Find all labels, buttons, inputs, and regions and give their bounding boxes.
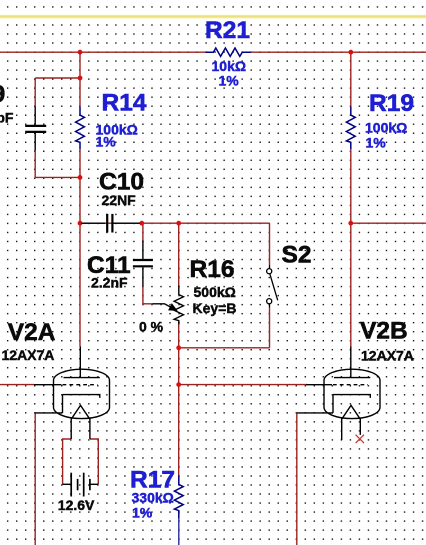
label C10 bbox=[99, 168, 144, 208]
svg-text:2.2nF: 2.2nF bbox=[91, 275, 128, 291]
svg-text:R16: R16 bbox=[190, 256, 235, 283]
node C9 top junction bbox=[78, 76, 83, 81]
wire bottom horizontal to S2 bbox=[179, 347, 270, 349]
label R21 bbox=[205, 17, 250, 89]
node V2B grid junction bbox=[176, 382, 181, 387]
wire top bus right bbox=[251, 51, 426, 53]
wire right vertical lower bbox=[350, 149, 352, 346]
wire down to R17 bbox=[178, 348, 180, 476]
tube V2B bbox=[297, 347, 380, 441]
wire left vertical lower bbox=[79, 149, 81, 346]
resistor R17 bbox=[174, 476, 183, 519]
label R14 bbox=[96, 90, 147, 150]
wire S2 bottom drop bbox=[269, 308, 271, 348]
label C11 bbox=[87, 252, 131, 291]
svg-text:100kΩ: 100kΩ bbox=[365, 120, 407, 136]
svg-text:12AX7A: 12AX7A bbox=[2, 347, 55, 363]
potentiometer R16 wiper arrowhead bbox=[169, 304, 177, 310]
node R16 top junction bbox=[176, 221, 181, 226]
tube V2A bbox=[34, 347, 110, 440]
label R19 bbox=[365, 90, 414, 151]
potentiometer R16 bbox=[153, 286, 184, 325]
wire R16 top bbox=[178, 223, 180, 285]
sheet border yellow line bbox=[0, 15, 426, 19]
svg-text:12.6V: 12.6V bbox=[58, 497, 95, 513]
svg-text:C9: C9 bbox=[0, 81, 5, 108]
wire top bus left bbox=[0, 51, 206, 53]
svg-text:0 %: 0 % bbox=[139, 319, 164, 335]
wire C9 top bbox=[35, 77, 80, 79]
switch S2 bbox=[267, 265, 278, 308]
V2B unconnected pin X bbox=[356, 435, 364, 443]
junction nodes bbox=[78, 50, 354, 387]
svg-text:10kΩ: 10kΩ bbox=[212, 58, 247, 74]
svg-text:V2A: V2A bbox=[8, 319, 56, 346]
svg-text:R14: R14 bbox=[102, 90, 147, 117]
wire grid V2B bbox=[179, 384, 308, 386]
svg-text:330kΩ: 330kΩ bbox=[132, 490, 174, 506]
node R19 bottom junction bbox=[348, 221, 353, 226]
wire heater right jog bbox=[90, 439, 98, 484]
label R16 bbox=[190, 256, 237, 316]
wire C11 wiper bbox=[143, 286, 153, 304]
capacitor C11 bbox=[133, 241, 153, 287]
node C9 bottom junction bbox=[78, 175, 83, 180]
wire right horizontal bbox=[351, 222, 426, 224]
wire C9 left upper bbox=[34, 78, 36, 107]
wire blue below R17 bbox=[178, 519, 180, 545]
svg-text:500kΩ: 500kΩ bbox=[194, 284, 236, 300]
svg-text:1%: 1% bbox=[96, 134, 117, 150]
node top-left junction bbox=[78, 50, 83, 55]
node bottom junction bbox=[176, 345, 181, 350]
svg-text:S2: S2 bbox=[282, 242, 312, 269]
wire middle horizontal bbox=[80, 222, 270, 224]
wire right vertical upper bbox=[350, 52, 352, 106]
wire C9 left lower bbox=[34, 151, 36, 178]
wire left vertical upper bbox=[79, 52, 81, 106]
label V2B bbox=[360, 318, 414, 364]
capacitor C10 bbox=[82, 214, 141, 233]
label V2A bbox=[2, 319, 56, 363]
label C9 (clipped at left edge) bbox=[0, 81, 14, 126]
resistor R21 bbox=[206, 48, 251, 56]
node C10 left junction bbox=[78, 221, 83, 226]
svg-text:R21: R21 bbox=[205, 17, 250, 44]
wire grid V2A bbox=[0, 384, 34, 386]
wire V2B cathode down bbox=[296, 413, 298, 545]
svg-text:220pF: 220pF bbox=[0, 110, 14, 126]
resistor R19 bbox=[346, 107, 355, 150]
resistor R14 bbox=[76, 107, 85, 150]
svg-text:1%: 1% bbox=[132, 504, 153, 520]
svg-text:22NF: 22NF bbox=[102, 192, 137, 208]
wire heater left jog bbox=[63, 439, 72, 484]
battery V3 (12.6V) bbox=[63, 473, 99, 497]
wire R16 bottom bbox=[178, 325, 180, 348]
wire C9 bottom bbox=[35, 176, 80, 178]
label R17 bbox=[130, 466, 175, 520]
wire C11 top stub bbox=[142, 223, 144, 241]
node C10 right junction bbox=[139, 221, 144, 226]
wire S2 top drop bbox=[269, 223, 271, 265]
wire V2A cathode down bbox=[34, 413, 36, 545]
svg-text:Key=B: Key=B bbox=[193, 300, 237, 316]
svg-text:V2B: V2B bbox=[360, 318, 408, 345]
node top-right junction bbox=[348, 50, 353, 55]
capacitor C9 bbox=[25, 107, 46, 151]
svg-text:1%: 1% bbox=[366, 135, 387, 151]
svg-text:12AX7A: 12AX7A bbox=[361, 347, 414, 363]
svg-text:R19: R19 bbox=[369, 90, 414, 117]
svg-text:1%: 1% bbox=[219, 73, 240, 89]
